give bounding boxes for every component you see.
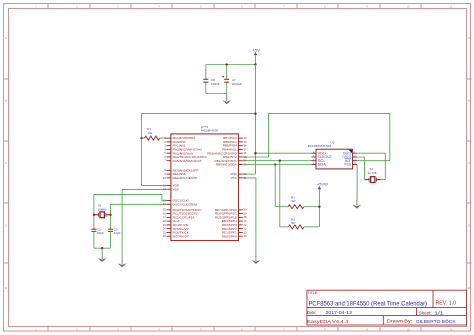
wire top rail to caps (206, 64, 256, 66)
power flag +5V (252, 48, 260, 55)
svg-text:+5V: +5V (252, 48, 260, 52)
svg-text:REV. 1.0: REV. 1.0 (436, 301, 457, 307)
wire crystal left column (93, 194, 95, 229)
capacitor C1 (91, 228, 104, 236)
wire R1/VDD feed vertical (141, 114, 143, 186)
junction SCL pullup (279, 160, 281, 162)
wire OSC2 to crystal (111, 204, 167, 215)
svg-text:2200uF: 2200uF (232, 82, 243, 86)
IC U2 PCF8563 (308, 141, 357, 169)
junction X1 left (93, 214, 95, 216)
wire C7 bottom (226, 82, 228, 93)
svg-text:1/1: 1/1 (434, 310, 444, 316)
junction R1 tee (140, 137, 142, 139)
wire +5VW stem (318, 190, 320, 227)
U2 corner mark (349, 150, 352, 153)
svg-text:SDA: SDA (318, 163, 327, 167)
wire +5V vertical main (255, 65, 257, 175)
junction SDA pullup (274, 163, 276, 165)
resistor R2 (275, 195, 319, 208)
svg-text:2017-04-12: 2017-04-12 (326, 310, 353, 316)
svg-text:EasyEDA V4.4.4: EasyEDA V4.4.4 (307, 319, 349, 324)
resistor R1 (142, 127, 167, 140)
wire U2 VSS to ground (356, 165, 358, 200)
wire PIC VDD pin 32 (243, 173, 256, 175)
svg-text:16MHz: 16MHz (98, 207, 108, 211)
junction +5V tee (254, 112, 256, 114)
svg-text:VSS: VSS (173, 187, 179, 191)
junction C7 top (226, 63, 228, 65)
svg-text:Date:: Date: (307, 310, 316, 316)
wire C2 down (110, 231, 112, 248)
svg-text:11: 11 (449, 327, 452, 331)
power flag +5VW (317, 182, 329, 189)
svg-text:4k7: 4k7 (291, 221, 296, 225)
capacitor C2 (108, 228, 121, 236)
junction crystal gnd (101, 247, 103, 249)
wire cap bottom rail (206, 93, 227, 95)
svg-text:VSS: VSS (230, 176, 236, 180)
crystal X2 (365, 167, 381, 182)
svg-text:PIC18F4550: PIC18F4550 (201, 129, 219, 133)
svg-text:E: E (468, 286, 470, 290)
junction +5V rail corner (254, 63, 256, 65)
wire +5V horizontal to R1 column (142, 113, 256, 115)
ground under U2 (352, 199, 361, 209)
ground under crystal (98, 252, 107, 263)
svg-text:VSS: VSS (344, 163, 351, 167)
svg-text:+5VW: +5VW (317, 182, 329, 186)
wire crystal ground rail (94, 247, 111, 249)
svg-text:OSC2/CLKO/RA6: OSC2/CLKO/RA6 (173, 202, 198, 206)
ground under C7 (222, 94, 231, 105)
svg-text:Sheet:: Sheet: (419, 310, 432, 316)
svg-text:10k: 10k (147, 131, 152, 135)
junction X1 right (109, 214, 111, 216)
wire C8 bottom (205, 82, 207, 93)
capacitor C8 (203, 78, 219, 86)
wire PIC VSS pin 31 to ground (243, 178, 256, 254)
svg-text:10: 10 (406, 327, 410, 331)
wire U2 VDD from +5V (256, 152, 312, 154)
ground below PIC (251, 254, 260, 264)
svg-text:B: B (468, 99, 470, 103)
wire C1 down (93, 231, 95, 248)
IC U1 PIC18F4550 (163, 125, 247, 240)
svg-text:10: 10 (406, 4, 410, 8)
resistor R3 (280, 217, 320, 229)
svg-text:4k7: 4k7 (291, 199, 296, 203)
wire OSC1 to crystal (94, 194, 167, 200)
svg-text:Drawn By:: Drawn By: (387, 319, 413, 324)
wire C7 top drop (226, 65, 228, 80)
wire INT loop (269, 114, 390, 161)
svg-text:TITLE:: TITLE: (307, 290, 318, 295)
svg-text:PCF8563T/5.518: PCF8563T/5.518 (308, 144, 332, 148)
svg-text:A: A (468, 36, 470, 40)
title block (307, 290, 467, 325)
wire crystal right column lower (110, 215, 112, 229)
junction U2 VDD tee (254, 152, 256, 154)
svg-text:32.768: 32.768 (368, 171, 377, 175)
ground below VSS12 (118, 257, 127, 267)
svg-text:RE2/AN7/OESPP: RE2/AN7/OESPP (173, 176, 197, 180)
svg-text:RC7/RX/DT: RC7/RX/DT (173, 234, 189, 238)
wire SCL PIC to U2 (243, 160, 312, 162)
svg-text:11: 11 (449, 4, 452, 8)
wire OSCI to X2 (357, 153, 385, 179)
wire PIC VSS pin 12 to ground (122, 189, 166, 257)
svg-text:100nF: 100nF (211, 82, 220, 86)
capacitor C7 (222, 76, 242, 86)
svg-text:RA5/AN4/SS/C2OUT: RA5/AN4/SS/C2OUT (173, 159, 202, 163)
svg-text:RD0/SPP0: RD0/SPP0 (222, 234, 237, 238)
svg-text:A: A (5, 36, 7, 40)
wire SCL pullup drop (279, 161, 281, 227)
wire to PIC VDD pin 11 (142, 184, 167, 186)
crystal X1 (94, 204, 111, 218)
wire RB2/INT2 to loop (243, 156, 269, 158)
svg-text:PCF8563 and 18F4550 (Real Time: PCF8563 and 18F4550 (Real Time Calendar) (309, 300, 428, 307)
wire SDA PIC to U2 (243, 164, 312, 166)
svg-text:E: E (5, 286, 7, 290)
svg-text:22pF: 22pF (97, 231, 104, 235)
svg-text:RB0/INT0/SDA: RB0/INT0/SDA (216, 163, 238, 167)
wire SDA pullup drop (274, 165, 276, 207)
wire OSCO to X2 (357, 157, 365, 180)
wire C8 top drop (205, 65, 207, 80)
wire gnd stem (101, 248, 103, 251)
svg-text:22pF: 22pF (114, 231, 121, 235)
wire +5V stem (255, 56, 257, 65)
svg-text:GILBERTO BÖCK: GILBERTO BÖCK (416, 318, 457, 325)
junction pullup rail (318, 206, 320, 208)
svg-text:B: B (5, 99, 7, 103)
